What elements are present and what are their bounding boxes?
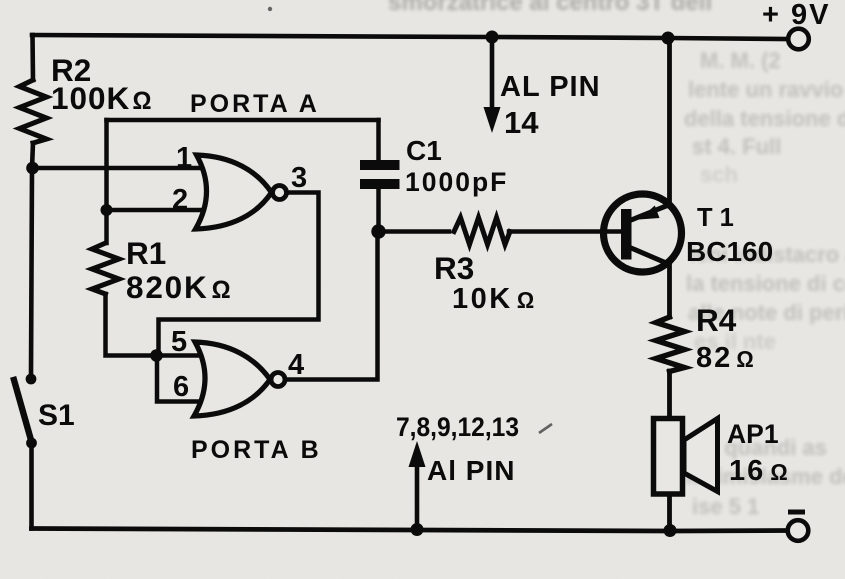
- svg-text:6: 6: [173, 371, 189, 403]
- svg-text:PORTA A: PORTA A: [190, 90, 320, 118]
- svg-text:T 1: T 1: [697, 204, 734, 232]
- wire gate B output 4 to C1/R3 node: [285, 234, 378, 380]
- svg-text:R1: R1: [126, 235, 166, 271]
- svg-text:+ 9V: + 9V: [762, 0, 830, 31]
- wire AI PIN arrow: [415, 465, 420, 528]
- node gate B inputs: [150, 349, 163, 362]
- wire left rail to S1: [31, 143, 33, 374]
- svg-text:C1: C1: [406, 135, 442, 166]
- wire gate B input 6 stub: [157, 356, 200, 402]
- node left rail / gate input 1: [26, 162, 39, 175]
- svg-text:R3: R3: [434, 250, 474, 286]
- node top rail / AL PIN: [486, 31, 499, 44]
- svg-text:R4: R4: [696, 302, 737, 338]
- resistor R4: [656, 317, 685, 372]
- wire left rail upper: [30, 35, 35, 80]
- wire gate A input 1: [33, 166, 201, 171]
- transistor T1: [604, 194, 682, 272]
- svg-text:4: 4: [288, 349, 304, 381]
- svg-text:Al PIN: Al PIN: [427, 455, 515, 486]
- svg-text:M. M. (2: M. M. (2: [700, 48, 781, 73]
- svg-text:PORTA B: PORTA B: [191, 436, 322, 464]
- svg-text:16Ω: 16Ω: [729, 455, 790, 487]
- svg-text:sch: sch: [700, 162, 738, 187]
- wire R4 to speaker: [667, 371, 672, 418]
- wire vertical R1 top branch: [104, 120, 109, 243]
- capacitor C1: [376, 120, 381, 161]
- switch S1: [26, 374, 37, 385]
- wire emitter vertical: [667, 38, 672, 206]
- node bottom rail / AI PIN: [411, 523, 424, 536]
- bleed-through text top edge: [388, 0, 712, 16]
- svg-text:la tensione di comu: la tensione di comu: [686, 271, 845, 296]
- svg-text:1000pF: 1000pF: [405, 167, 508, 197]
- svg-text:82Ω: 82Ω: [696, 342, 756, 374]
- wire AL PIN 14 arrow: [490, 40, 495, 110]
- stray ink dot above PORTA A: [268, 7, 272, 11]
- svg-text:smorzatrice al centro 3T dell: smorzatrice al centro 3T dell: [388, 0, 712, 16]
- resistor R2: [20, 80, 47, 143]
- resistor R1: [92, 243, 119, 294]
- svg-text:1: 1: [176, 142, 192, 174]
- bleed-through text right column: [684, 48, 845, 519]
- svg-text:AL PIN: AL PIN: [500, 71, 601, 103]
- wire gate A output to gate B feedback: [159, 193, 319, 353]
- svg-text:14: 14: [504, 105, 539, 140]
- svg-text:AP1: AP1: [727, 419, 779, 449]
- resistor R3: [454, 218, 510, 245]
- wire feedback top (under PORTA A): [107, 118, 379, 123]
- wire collector vertical: [667, 262, 672, 317]
- node C1 / R3 / pin4: [371, 224, 385, 238]
- node gate input 2 / R1: [101, 204, 113, 216]
- wire R1 bottom to gate B: [106, 294, 200, 356]
- gate A (NOR, PORTA A): [196, 155, 272, 229]
- wire left rail lower: [29, 446, 34, 529]
- wire speaker to bottom rail: [667, 494, 672, 529]
- wire R3 to transistor base: [509, 229, 621, 234]
- svg-text:lente un ravvio th.: lente un ravvio th.: [688, 77, 845, 102]
- svg-text:BC160: BC160: [686, 236, 773, 267]
- svg-text:3: 3: [291, 162, 307, 194]
- svg-text:2: 2: [172, 184, 188, 216]
- gate B (NOR, PORTA B): [194, 342, 270, 416]
- wire gate A input 2: [107, 208, 202, 213]
- node top rail / T1: [662, 32, 675, 45]
- speaker AP1: [684, 419, 718, 492]
- svg-text:5: 5: [171, 326, 187, 358]
- svg-text:10KΩ: 10KΩ: [452, 283, 537, 315]
- svg-text:st 4. Full: st 4. Full: [692, 134, 781, 159]
- wire top rail: [32, 35, 789, 39]
- terminal +9V: [788, 29, 809, 50]
- node bottom rail / speaker: [664, 524, 677, 537]
- wire bottom rail: [32, 529, 789, 532]
- stray pen tick near 7,8,9,12,13: [539, 424, 552, 433]
- svg-text:ise 5 1: ise 5 1: [692, 494, 759, 519]
- svg-text:7,8,9,12,13: 7,8,9,12,13: [396, 412, 519, 442]
- svg-text:S1: S1: [38, 399, 75, 432]
- svg-text:della tensione di tel: della tensione di tel: [684, 106, 845, 131]
- terminal minus: [788, 520, 809, 541]
- wire R3 left lead: [379, 229, 450, 234]
